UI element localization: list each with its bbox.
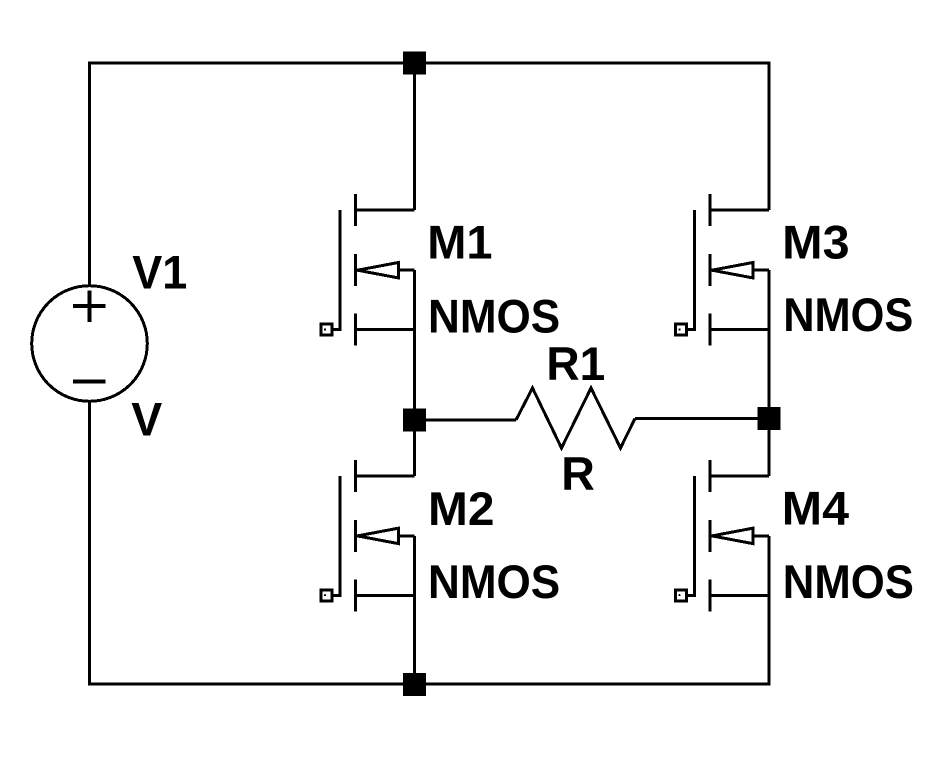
source lead	[710, 328, 769, 331]
wire resistor to right mid node	[635, 417, 758, 420]
resistor R1	[516, 388, 635, 448]
svg-text:M3: M3	[782, 216, 849, 269]
wire body to source	[413, 270, 416, 330]
wire left rail lower	[88, 402, 91, 686]
wire mid node to M2 drain	[413, 420, 416, 476]
body arrow	[712, 263, 753, 278]
body lead	[753, 269, 769, 272]
gate line	[339, 476, 342, 596]
drain lead	[356, 209, 415, 212]
gate pin square	[676, 590, 687, 601]
gate pin stub	[327, 328, 342, 331]
junction right mid node	[758, 407, 781, 430]
wire M2 source to bottom node	[413, 595, 416, 684]
wire bottom rail	[90, 683, 770, 686]
wire M1 drain to top node	[413, 63, 416, 210]
gate pin dot	[678, 594, 680, 596]
svg-text:M1: M1	[427, 216, 492, 269]
svg-text:NMOS: NMOS	[783, 289, 913, 342]
gate pin square	[321, 590, 332, 601]
gate pin stub	[681, 328, 696, 331]
channel bars	[709, 194, 712, 346]
wire top rail	[90, 62, 770, 65]
body lead	[398, 269, 414, 272]
body arrow	[358, 528, 399, 543]
svg-text:V: V	[131, 393, 162, 446]
svg-text:M2: M2	[428, 483, 494, 536]
voltage source V1	[32, 286, 148, 402]
transistor M2	[321, 460, 415, 612]
drain lead	[710, 209, 769, 212]
transistor M4	[676, 460, 770, 612]
wire body to source	[768, 270, 771, 330]
source lead	[710, 594, 769, 597]
wire right mid node to M4 drain	[768, 419, 771, 476]
body arrow	[358, 263, 399, 278]
source lead	[356, 594, 415, 597]
wire body to source	[413, 536, 416, 596]
gate pin dot	[324, 594, 326, 596]
junction left mid node	[403, 409, 426, 432]
wire body to source	[768, 536, 771, 596]
gate pin dot	[678, 328, 680, 330]
body arrow	[712, 528, 753, 543]
drain lead	[356, 474, 415, 477]
gate pin dot	[324, 328, 326, 330]
channel bars	[709, 460, 712, 612]
svg-text:NMOS: NMOS	[428, 556, 560, 609]
gate pin square	[676, 324, 687, 335]
drain lead	[710, 474, 769, 477]
junction top node	[403, 52, 426, 75]
wire left mid node to resistor	[426, 419, 516, 422]
transistor M1	[321, 194, 415, 346]
wire right rail top	[768, 62, 771, 211]
gate line	[693, 210, 696, 330]
svg-text:NMOS: NMOS	[783, 556, 914, 609]
source lead	[356, 328, 415, 331]
svg-text:NMOS: NMOS	[428, 290, 560, 343]
wire M3 source to right mid node	[768, 330, 771, 419]
wire M1 source to mid node	[413, 330, 416, 420]
gate pin stub	[681, 594, 696, 597]
gate line	[693, 476, 696, 596]
wire right rail bottom	[768, 595, 771, 685]
body lead	[753, 534, 769, 537]
transistor M3	[676, 194, 770, 346]
gate pin stub	[327, 594, 342, 597]
svg-text:M4: M4	[782, 482, 850, 535]
body lead	[398, 534, 414, 537]
svg-text:R: R	[561, 448, 595, 501]
wire left rail	[88, 62, 91, 285]
channel bars	[354, 460, 357, 612]
channel bars	[354, 194, 357, 346]
gate pin square	[321, 324, 332, 335]
svg-text:R1: R1	[546, 338, 605, 391]
junction bottom node	[403, 673, 426, 696]
svg-text:V1: V1	[132, 247, 187, 300]
gate line	[339, 210, 342, 330]
